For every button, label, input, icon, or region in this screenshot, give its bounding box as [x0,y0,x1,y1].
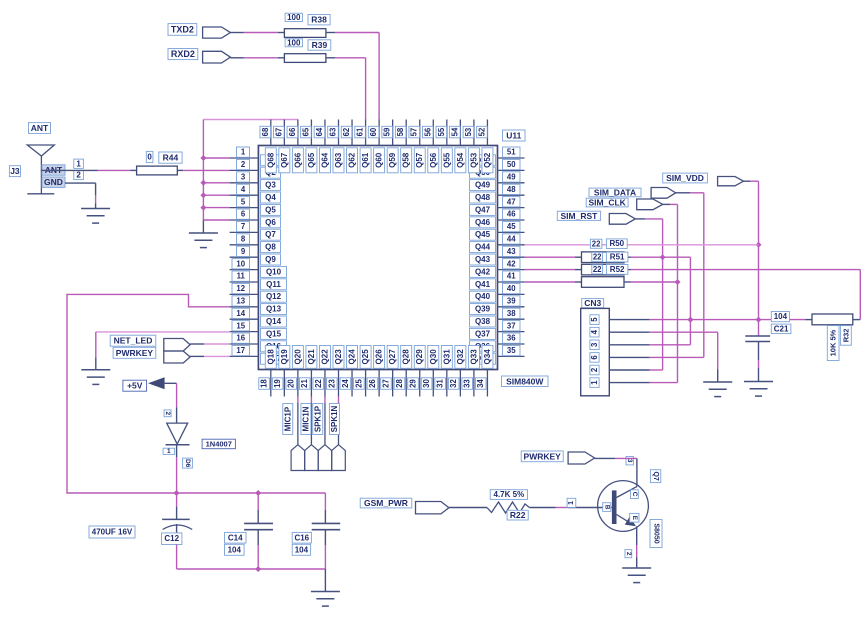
wire C16 to ground [324,569,326,592]
wire SIM_VDD vertical to C21 [756,181,762,336]
U11 top pin numbers 68-52 [260,126,487,138]
svg-text:B: B [603,505,610,510]
svg-text:MIC1P: MIC1P [283,406,292,431]
wire SIM_RST vertical to CN3 pin 2 [660,219,666,370]
svg-text:Q48: Q48 [475,193,491,202]
svg-text:R22: R22 [510,510,526,520]
svg-text:62: 62 [342,127,351,136]
antenna symbol [27,145,54,194]
svg-text:Q27: Q27 [388,349,397,365]
svg-text:Q49: Q49 [475,181,491,190]
svg-text:Q26: Q26 [375,349,384,365]
svg-text:S8050: S8050 [653,523,660,543]
svg-text:Q46: Q46 [475,218,491,227]
svg-text:2: 2 [625,552,632,556]
svg-text:1N4007: 1N4007 [206,439,232,448]
svg-text:R52: R52 [610,265,625,274]
wire GSM_PWR to R22 [449,507,487,509]
junction dots on +5V rail [174,490,262,496]
svg-text:C21: C21 [774,324,789,333]
svg-text:49: 49 [507,172,516,181]
U11 left pin stubs 1-17 [230,158,259,356]
svg-text:Q54: Q54 [456,152,465,168]
svg-text:R32: R32 [841,329,850,343]
svg-text:SIM_RST: SIM_RST [561,211,599,221]
svg-text:Q63: Q63 [334,152,343,168]
svg-text:Q20: Q20 [293,349,302,365]
svg-text:5: 5 [241,197,246,206]
svg-text:+5V: +5V [127,381,143,391]
svg-text:Q45: Q45 [475,230,491,239]
svg-text:57: 57 [410,128,419,137]
svg-text:48: 48 [507,185,516,194]
svg-text:0: 0 [147,153,152,162]
svg-text:Q57: Q57 [415,152,424,168]
svg-text:26: 26 [368,379,377,388]
junction dots on ground bus [200,155,206,211]
svg-text:38: 38 [507,309,516,318]
CN3 pin 4 wire to ground [609,332,717,382]
svg-text:Q29: Q29 [415,349,424,365]
svg-text:SIM_CLK: SIM_CLK [588,198,626,208]
svg-text:Q18: Q18 [266,349,275,365]
svg-text:43: 43 [507,247,516,256]
svg-text:19: 19 [273,379,282,388]
svg-text:Q10: Q10 [266,267,282,276]
wire U11 pin 15 to ground [96,332,230,370]
svg-text:Q38: Q38 [475,317,491,326]
svg-text:28: 28 [395,379,404,388]
port RXD2 [168,49,230,64]
svg-text:18: 18 [260,379,269,388]
wire emitter to ground [636,526,638,568]
svg-text:Q25: Q25 [361,349,370,365]
wire PWRKEY to collector [595,458,637,486]
svg-text:TXD2: TXD2 [171,24,194,34]
svg-text:U11: U11 [506,131,521,141]
svg-text:1: 1 [241,148,246,157]
svg-text:CN3: CN3 [584,298,601,308]
svg-text:2: 2 [590,367,599,372]
ground (emitter Q7) [622,568,651,583]
svg-text:Q15: Q15 [266,329,282,338]
svg-text:3: 3 [626,459,633,463]
U11 right pin stubs 51-35 [498,158,525,356]
svg-text:36: 36 [507,334,516,343]
svg-text:NET_LED: NET_LED [114,336,153,346]
svg-text:Q42: Q42 [475,267,491,276]
svg-text:10K 5%: 10K 5% [829,329,838,356]
svg-text:54: 54 [450,127,459,136]
svg-text:C16: C16 [294,533,309,542]
svg-text:Q39: Q39 [475,305,491,314]
resistor R44 value 0 [137,151,183,175]
svg-text:14: 14 [236,309,245,318]
svg-text:R51: R51 [610,253,625,262]
svg-text:Q58: Q58 [402,152,411,168]
svg-text:56: 56 [423,127,432,136]
svg-text:58: 58 [396,127,405,136]
port SPK1N [329,404,339,435]
svg-text:Q24: Q24 [348,349,357,365]
U11 designator label [503,130,526,141]
U11 left pin names Q1-Q17 [261,155,287,364]
svg-text:32: 32 [449,379,458,388]
svg-text:21: 21 [300,379,309,388]
svg-text:Q21: Q21 [307,349,316,365]
svg-text:Q53: Q53 [469,152,478,168]
svg-text:SIM_DATA: SIM_DATA [594,187,636,197]
capacitor C16 104 [292,493,340,569]
svg-text:22: 22 [593,265,602,274]
svg-text:23: 23 [327,379,336,388]
svg-text:35: 35 [507,346,516,355]
svg-text:1: 1 [590,380,599,385]
svg-text:Q68: Q68 [266,152,275,168]
svg-text:34: 34 [476,379,485,388]
wire R44 to U11 pin 2 [177,169,229,171]
CN3 pin 1 wire [609,382,677,384]
svg-text:22: 22 [592,239,601,248]
svg-text:6: 6 [241,210,246,219]
wire J3 pin1 ANT to R44 [41,169,137,171]
capacitor C14 104 [225,493,274,569]
svg-text:51: 51 [507,148,516,157]
wire +5V to diode D6 [176,383,178,423]
svg-text:13: 13 [236,296,245,305]
wire R51 output down to CN3 pin 3 [687,257,693,345]
svg-text:Q3: Q3 [265,181,276,190]
port TXD2 [168,24,230,38]
wire J3 pin2 GND to ground [65,183,96,208]
svg-text:16: 16 [236,334,245,343]
svg-text:ANT: ANT [31,123,49,133]
wire R39 to U11 pin 61 [326,58,366,120]
resistor R38 value 100 [284,13,330,38]
ground bus wire left of U11 (pins 1,3,4,5,6,66) [203,120,298,234]
svg-text:24: 24 [341,379,350,388]
svg-text:Q67: Q67 [280,152,289,168]
wire TXD2 to R38 [230,32,284,34]
svg-text:2: 2 [241,160,246,169]
svg-text:470UF 16V: 470UF 16V [92,528,133,537]
svg-text:Q12: Q12 [266,292,282,301]
svg-text:C12: C12 [164,534,179,543]
svg-text:Q41: Q41 [475,280,491,289]
svg-text:Q5: Q5 [265,205,276,214]
ground (J3 GND) [81,209,110,224]
svg-text:E: E [631,516,638,521]
svg-text:Q60: Q60 [375,152,384,168]
svg-text:SPK1N: SPK1N [330,405,339,432]
svg-text:9: 9 [241,247,246,256]
wire U11 pin 44 to SIM_VDD net [525,244,759,246]
svg-text:25: 25 [354,379,363,388]
wire R38 to U11 pin 60 [326,33,379,120]
wire R32 up to R52/pin42 net [859,270,861,320]
svg-text:29: 29 [409,379,418,388]
svg-text:104: 104 [295,545,309,554]
svg-text:RXD2: RXD2 [171,49,195,59]
svg-text:10: 10 [236,259,245,268]
svg-text:Q55: Q55 [442,152,451,168]
resistor (pin 41, unlabeled) [525,277,678,288]
svg-text:SIM_VDD: SIM_VDD [666,173,704,183]
svg-text:Q22: Q22 [320,349,329,365]
port SIM_VDD [663,173,759,186]
svg-text:52: 52 [477,127,486,136]
port MIC1N [301,404,311,435]
svg-text:66: 66 [288,127,297,136]
svg-text:J3: J3 [10,166,20,176]
svg-text:41: 41 [507,272,516,281]
svg-text:33: 33 [463,379,472,388]
svg-text:39: 39 [507,296,516,305]
svg-text:11: 11 [237,272,246,281]
svg-text:1: 1 [167,448,171,455]
svg-text:2: 2 [76,171,81,180]
svg-text:1: 1 [76,159,81,168]
svg-text:Q13: Q13 [266,305,282,314]
svg-text:22: 22 [593,253,602,262]
svg-text:4.7K 5%: 4.7K 5% [494,490,525,499]
svg-text:3: 3 [590,342,599,347]
wire +5V rail to U11 pin 13 [67,294,230,493]
svg-text:100: 100 [287,13,301,22]
port SIM_CLK [586,198,677,210]
resistor R22 4.7K 5% [487,490,529,520]
svg-text:4: 4 [590,329,599,334]
U11 right pin names Q51-Q35 [470,155,496,364]
svg-text:Q23: Q23 [334,349,343,365]
svg-text:Q30: Q30 [429,349,438,365]
svg-text:Q43: Q43 [475,255,491,264]
svg-text:104: 104 [774,312,788,321]
svg-text:68: 68 [261,127,270,136]
port PWRKEY (bottom) [521,451,594,464]
capacitor C21 104 [745,312,791,382]
CN3 pin 5 wire to R32 (SIM_VDD net) [609,317,805,323]
svg-text:50: 50 [507,160,516,169]
wires U11 pins 20-23 to audio ports [298,397,339,445]
antenna ANT label [29,123,51,134]
svg-text:30: 30 [422,379,431,388]
ground (C21) [744,382,773,397]
svg-text:Q66: Q66 [293,152,302,168]
wire +5V rail right segment to C16 [177,492,326,494]
svg-text:Q65: Q65 [307,152,316,168]
svg-text:GSM_PWR: GSM_PWR [364,498,408,508]
resistor R50 value 22 [590,239,627,249]
ground (CN3 pin 4) [703,382,732,397]
U11 right pin numbers 51-35 [503,147,521,356]
svg-text:SPK1P: SPK1P [313,405,322,432]
svg-text:1: 1 [568,501,575,505]
svg-text:55: 55 [437,127,446,136]
svg-text:45: 45 [507,222,516,231]
svg-text:Q40: Q40 [475,292,491,301]
ground (pin 15) [81,370,110,385]
svg-text:Q11: Q11 [266,280,281,289]
svg-text:104: 104 [228,545,242,554]
port MIC1P [283,404,293,435]
resistor R52 value 22 (pin 42) [525,264,861,275]
diode D6 1N4007 [163,410,235,468]
svg-text:37: 37 [507,321,516,330]
U11 part label SIM840W [502,376,549,387]
svg-text:60: 60 [369,127,378,136]
wire SIM_CLK vertical to CN3 pin 1 [675,204,681,382]
svg-text:C14: C14 [228,533,243,542]
svg-text:Q19: Q19 [280,349,289,365]
svg-text:Q34: Q34 [483,349,492,365]
svg-text:5: 5 [590,317,599,322]
svg-text:40: 40 [507,284,516,293]
svg-text:R39: R39 [312,40,328,50]
svg-text:Q31: Q31 [442,349,451,365]
svg-text:Q33: Q33 [469,349,478,365]
svg-text:Q28: Q28 [402,349,411,365]
svg-text:Q64: Q64 [320,152,329,168]
svg-text:Q7: Q7 [652,471,659,480]
U11 left pin numbers 1-17 [232,147,250,356]
svg-text:Q4: Q4 [265,193,276,202]
svg-text:3: 3 [241,172,246,181]
resistor R32 10K 5% [806,314,861,361]
power port +5V [123,377,177,391]
port SPK1P [313,404,323,435]
wire RXD2 to R39 [230,57,284,59]
svg-text:100: 100 [287,38,301,47]
U11 top pin stubs 68-52 [271,120,488,146]
svg-text:Q62: Q62 [348,152,357,168]
svg-text:R38: R38 [311,15,327,25]
U11 bottom pin numbers 18-34 [259,378,486,390]
svg-text:Q6: Q6 [265,218,276,227]
ground (C16) [311,592,340,607]
svg-text:44: 44 [507,234,516,243]
svg-text:17: 17 [236,346,245,355]
svg-text:D6: D6 [184,459,191,468]
svg-text:Q47: Q47 [475,205,491,214]
port SIM_DATA [589,187,704,198]
svg-text:42: 42 [507,259,516,268]
svg-text:PWRKEY: PWRKEY [116,348,154,358]
connector CN3 [581,298,610,396]
svg-text:R44: R44 [163,153,179,163]
svg-text:Q32: Q32 [456,349,465,365]
svg-text:31: 31 [436,379,445,388]
svg-text:8: 8 [241,234,246,243]
svg-text:27: 27 [381,379,390,388]
svg-text:59: 59 [383,127,392,136]
op-amp U11 body (SIM840W QFP) [258,146,497,370]
wire bottom rail C12-C14-C16 [177,566,326,572]
svg-text:Q7: Q7 [265,230,276,239]
svg-text:47: 47 [507,197,516,206]
svg-text:67: 67 [274,128,283,137]
svg-text:Q37: Q37 [475,329,491,338]
svg-text:4: 4 [241,185,246,194]
svg-text:Q52: Q52 [483,152,492,168]
svg-text:MIC1N: MIC1N [301,406,310,431]
svg-text:PWRKEY: PWRKEY [524,451,562,461]
wire NET_LED to pin 16 [190,343,230,345]
wire diode to +5V rail [176,445,178,493]
svg-text:Q59: Q59 [388,152,397,168]
svg-text:R50: R50 [609,239,624,248]
CN3 pin 3 wire [609,344,690,346]
wire PWRKEY to pin 17 [190,355,230,357]
CN3 pin numbers 5,4,3,6,2,1 [590,315,599,388]
resistor R51 value 22 (pin 43) [525,252,691,263]
capacitor C12 470UF 16V [89,493,192,569]
svg-text:63: 63 [329,127,338,136]
svg-text:SIM840W: SIM840W [506,376,544,386]
svg-text:Q14: Q14 [266,317,282,326]
svg-text:22: 22 [314,379,323,388]
svg-text:53: 53 [464,127,473,136]
svg-text:2: 2 [164,411,171,415]
U11 bottom pin stubs 18-34 [271,370,488,397]
svg-text:12: 12 [236,284,245,293]
CN3 pin 6 wire [609,356,704,358]
svg-text:20: 20 [287,379,296,388]
svg-text:Q8: Q8 [265,243,276,252]
audio port funnels [291,445,345,471]
svg-text:Q56: Q56 [429,152,438,168]
svg-text:61: 61 [356,127,365,136]
U11 top pin names Q68-Q52 [265,148,493,173]
wire SIM_DATA vertical to CN3 pin 6 [703,193,705,358]
svg-text:6: 6 [590,355,599,360]
wire R22 to transistor base [529,498,612,507]
svg-text:Q44: Q44 [475,243,491,252]
svg-text:Q9: Q9 [265,255,276,264]
svg-text:46: 46 [507,210,516,219]
port SIM_RST [557,211,662,224]
resistor R39 value 100 [284,38,330,62]
CN3 pin 2 wire [609,369,662,371]
U11 bottom pin names Q18-Q34 [265,346,493,369]
svg-text:15: 15 [236,321,245,330]
svg-text:GND: GND [44,177,63,187]
svg-text:C: C [631,492,638,497]
svg-text:64: 64 [315,127,324,136]
svg-text:7: 7 [241,222,245,231]
svg-text:Q61: Q61 [361,152,370,168]
connector J3 [9,159,83,187]
port NET_LED [110,335,190,351]
svg-text:65: 65 [301,127,310,136]
port PWRKEY (left) [113,347,190,363]
port GSM_PWR [360,498,449,514]
ground (antenna bus) [189,233,218,248]
transistor Q7 S8050 [598,457,662,558]
